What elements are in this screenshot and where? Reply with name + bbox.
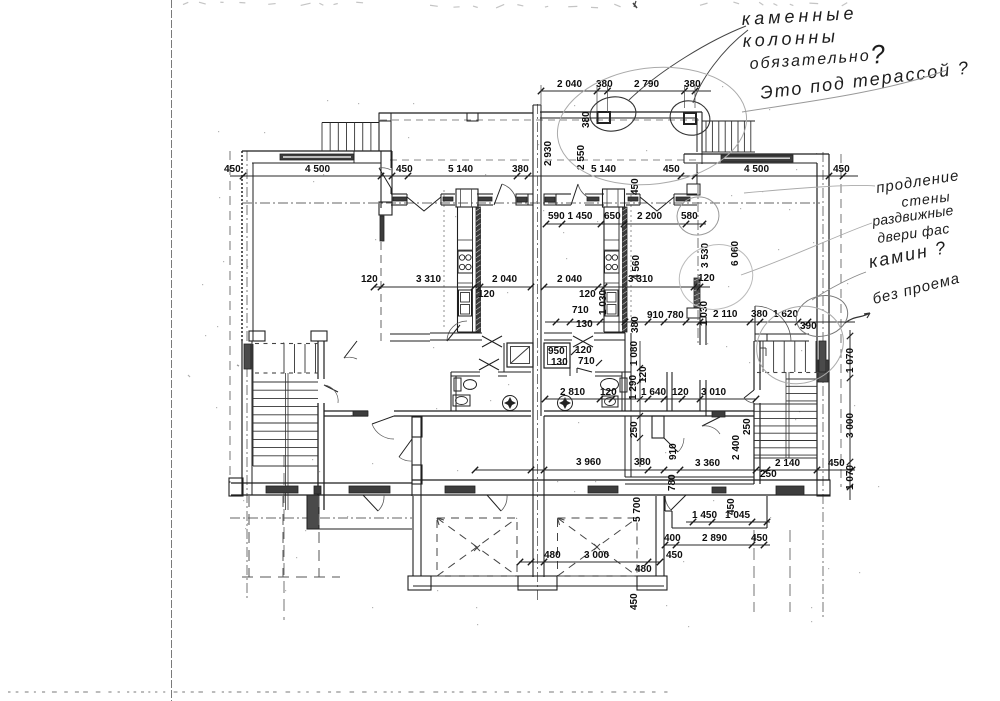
terrace open edge dashed bbox=[380, 242, 382, 341]
svg-text:450: 450 bbox=[828, 458, 845, 469]
pen curve kamin leader bbox=[812, 272, 866, 300]
svg-text:450: 450 bbox=[833, 164, 850, 175]
dimension line porch right bbox=[662, 533, 770, 548]
axis line vertical right wall x823 bbox=[822, 152, 824, 620]
stairs entry door arc right bbox=[755, 306, 791, 341]
svg-text:120: 120 bbox=[638, 366, 649, 383]
svg-text:1 640: 1 640 bbox=[641, 387, 666, 398]
svg-text:2 810: 2 810 bbox=[560, 387, 585, 398]
svg-text:2 140: 2 140 bbox=[775, 458, 800, 469]
wall stairs-east left unit bbox=[318, 341, 324, 510]
terrace bottom pilaster A bbox=[249, 331, 265, 341]
axis dashed pencil line terrace y160 right bbox=[545, 159, 697, 161]
terrace top-left window sill core bbox=[283, 156, 351, 158]
dimension line top terrace bbox=[538, 79, 711, 94]
shower square left bbox=[507, 343, 533, 367]
dashed X square left bbox=[437, 518, 517, 576]
svg-text:3 000: 3 000 bbox=[584, 550, 609, 561]
svg-text:650: 650 bbox=[604, 211, 621, 222]
x mark square left bbox=[474, 545, 480, 551]
svg-text:3 010: 3 010 bbox=[701, 387, 726, 398]
axis line horizontal left terrace y518 bbox=[230, 517, 412, 519]
terrace bottom pilaster B bbox=[311, 331, 327, 341]
door arc mid-room left bbox=[344, 341, 357, 359]
dashed terrace lower left bbox=[242, 496, 340, 577]
bathroom walls right bbox=[570, 368, 631, 411]
pencil leader prodlenie bbox=[744, 185, 875, 193]
svg-text:120: 120 bbox=[361, 274, 378, 285]
vertical dimension right margin bbox=[845, 330, 856, 500]
stair landing bar right bbox=[755, 334, 809, 341]
door arc corridor left unit bbox=[372, 416, 394, 439]
pen circle column left bbox=[588, 94, 638, 134]
pier top hall wall left bbox=[412, 417, 422, 484]
dimension line right kitchen bbox=[541, 273, 715, 300]
svg-text:1 030: 1 030 bbox=[598, 290, 609, 315]
dimension line corridor bottom bbox=[472, 457, 855, 480]
vertical dim line x640 bbox=[637, 341, 643, 467]
svg-text:710: 710 bbox=[572, 305, 589, 316]
kitchen left door from terrace bbox=[447, 321, 467, 341]
bathroom walls left bbox=[451, 343, 531, 411]
mid wall left unit bbox=[390, 333, 482, 341]
svg-text:2 040: 2 040 bbox=[557, 79, 582, 90]
door wedge left B bbox=[479, 359, 499, 370]
dimension line main top bbox=[224, 164, 858, 179]
svg-text:380: 380 bbox=[512, 164, 529, 175]
door wedge right A bbox=[573, 336, 593, 347]
house bottom wall bbox=[412, 480, 830, 495]
svg-text:450: 450 bbox=[726, 498, 737, 515]
top-right window sill core bbox=[724, 157, 790, 159]
pencil swoosh under terrasa note bbox=[742, 70, 947, 112]
axis line vertical left wall x247 bbox=[246, 151, 248, 600]
scan fold vertical line bbox=[171, 0, 173, 701]
lower wall right unit bbox=[625, 477, 754, 484]
axis line vertical party wall x537 bbox=[537, 104, 539, 600]
axis dashed pencil line upper rooms y120 bbox=[380, 119, 700, 121]
svg-text:780: 780 bbox=[667, 310, 684, 321]
svg-text:910: 910 bbox=[668, 443, 679, 460]
svg-text:колонны: колонны bbox=[742, 26, 839, 51]
pier below corridor right bbox=[652, 416, 664, 438]
svg-text:4 500: 4 500 bbox=[744, 164, 769, 175]
door arc stairs right bbox=[744, 390, 754, 403]
bottom terrace walls bbox=[408, 496, 667, 590]
dimension line porch steps bbox=[686, 510, 770, 525]
svg-text:380: 380 bbox=[634, 457, 651, 468]
svg-text:2 040: 2 040 bbox=[492, 274, 517, 285]
upper room top wall left unit bbox=[379, 113, 533, 194]
dimension line right unit rooms bbox=[543, 211, 706, 227]
svg-text:120: 120 bbox=[575, 345, 592, 356]
pencil leader razdvizhnye bbox=[741, 223, 872, 275]
pen leader to kamennye A bbox=[629, 26, 746, 100]
door arc bottom center bbox=[487, 495, 507, 511]
pier block right unit A bbox=[687, 184, 700, 195]
stair west wall right unit bbox=[754, 341, 760, 484]
svg-text:250: 250 bbox=[629, 421, 640, 438]
svg-text:1 080: 1 080 bbox=[629, 341, 640, 366]
toilet left bbox=[454, 378, 477, 391]
left outer face dashed bbox=[229, 151, 231, 483]
pen leader to kamennye B bbox=[693, 30, 748, 103]
dim ext ticks top bbox=[541, 85, 695, 112]
corridor wall right unit bbox=[544, 317, 754, 417]
toilet right bbox=[601, 378, 628, 392]
svg-text:120: 120 bbox=[478, 289, 495, 300]
exterior stairs top-right bbox=[702, 121, 755, 152]
front wall right unit bbox=[544, 184, 697, 211]
corridor wall left unit bbox=[324, 411, 531, 416]
dimension line bathrooms bbox=[542, 387, 759, 402]
dashed X square right bbox=[558, 518, 638, 576]
svg-text:2 400: 2 400 bbox=[731, 435, 742, 460]
axis line horizontal y203 bbox=[242, 202, 820, 204]
svg-text:480: 480 bbox=[544, 550, 561, 561]
bottom wall left wing bbox=[229, 478, 412, 496]
door arc bottom right unit bbox=[665, 495, 686, 510]
axis dashed vertical x754 bottom right bbox=[753, 530, 755, 612]
svg-text:3 360: 3 360 bbox=[695, 458, 720, 469]
svg-text:480: 480 bbox=[635, 564, 652, 575]
svg-text:130: 130 bbox=[551, 357, 568, 368]
kitchen unit left bbox=[456, 189, 481, 332]
vent square right unit bbox=[544, 343, 570, 368]
extension dotted vertical x444 bbox=[443, 190, 445, 330]
window band right unit bbox=[694, 278, 700, 308]
svg-text:без проема: без проема bbox=[871, 270, 962, 308]
door arc corridor right bbox=[702, 417, 720, 434]
door arc pier right bbox=[664, 438, 684, 452]
dimension line bottom terrace bbox=[517, 550, 663, 575]
svg-text:каменные: каменные bbox=[741, 3, 858, 29]
label 120 shower right bbox=[571, 345, 592, 356]
svg-text:450: 450 bbox=[396, 164, 413, 175]
pen arrow bottom right bbox=[845, 313, 870, 323]
svg-text:?: ? bbox=[869, 38, 888, 70]
door wedge left A bbox=[482, 336, 502, 347]
dimension line left kitchen bbox=[361, 274, 534, 300]
basin left bbox=[453, 395, 470, 406]
axis dashed vertical x790 bottom right bbox=[789, 530, 791, 612]
terrace pilaster right bbox=[379, 202, 392, 215]
top wall right unit bbox=[684, 154, 829, 163]
label 710 shower right bbox=[578, 356, 602, 367]
svg-text:2 200: 2 200 bbox=[637, 211, 662, 222]
svg-text:380: 380 bbox=[596, 79, 613, 90]
pen circle column right bbox=[666, 97, 713, 140]
svg-text:3 000: 3 000 bbox=[845, 413, 856, 438]
pier block right unit B bbox=[687, 308, 700, 318]
front wall left unit with windows and doors bbox=[391, 184, 533, 211]
terrace top-left walls bbox=[242, 151, 392, 341]
svg-text:450: 450 bbox=[629, 593, 640, 610]
svg-text:130: 130 bbox=[576, 319, 593, 330]
svg-text:380: 380 bbox=[630, 316, 641, 333]
svg-text:3 960: 3 960 bbox=[576, 457, 601, 468]
x mark square right bbox=[594, 544, 600, 550]
scan dotted line bottom bbox=[8, 691, 668, 693]
interior wall right unit bbox=[625, 416, 631, 477]
svg-text:450: 450 bbox=[630, 178, 641, 195]
exterior stairs top-left bbox=[322, 123, 379, 152]
terrace top-right wall and columns bbox=[540, 112, 702, 184]
terrace window band right bbox=[380, 216, 384, 241]
pencil big ellipse terrace bbox=[551, 57, 754, 195]
wall bath-east right unit bbox=[667, 372, 672, 411]
svg-text:4 560: 4 560 bbox=[631, 255, 642, 280]
svg-text:1 030: 1 030 bbox=[699, 301, 710, 326]
pencil circle fireplace bbox=[792, 290, 853, 342]
svg-text:4 500: 4 500 bbox=[305, 164, 330, 175]
terrace top-left window sill bbox=[280, 154, 354, 160]
svg-text:1 290: 1 290 bbox=[628, 375, 639, 400]
svg-text:3 310: 3 310 bbox=[416, 274, 441, 285]
svg-text:2 550: 2 550 bbox=[576, 145, 587, 170]
right outer wall bbox=[817, 154, 830, 496]
svg-text:910: 910 bbox=[647, 310, 664, 321]
rotated dimension labels bbox=[543, 111, 753, 610]
svg-text:710: 710 bbox=[578, 356, 595, 367]
arrowhead square left bbox=[437, 518, 444, 525]
svg-text:2 040: 2 040 bbox=[557, 274, 582, 285]
terrace door leaf left bbox=[379, 168, 391, 188]
svg-text:590 1 450: 590 1 450 bbox=[548, 211, 593, 222]
kitchen unit right bbox=[603, 189, 628, 332]
svg-text:120: 120 bbox=[698, 273, 715, 284]
scan noise top edge bbox=[183, 2, 847, 8]
svg-text:450: 450 bbox=[751, 533, 768, 544]
axis dash-dot x698 bbox=[697, 184, 699, 345]
svg-text:120: 120 bbox=[579, 289, 596, 300]
dimension line mid right bbox=[545, 305, 855, 332]
svg-text:450: 450 bbox=[666, 550, 683, 561]
party wall center bbox=[533, 105, 544, 577]
svg-text:450: 450 bbox=[663, 164, 680, 175]
svg-text:2 110: 2 110 bbox=[713, 309, 738, 320]
staircase right unit bbox=[754, 341, 826, 458]
extension dotted vertical x631 bbox=[630, 190, 632, 330]
right outer face dashed bbox=[840, 154, 842, 487]
axis dashed pencil line upper rooms y160 bbox=[390, 159, 533, 161]
terrace corner block top-left bbox=[353, 151, 355, 163]
porch left bbox=[307, 486, 412, 529]
basin right bbox=[602, 396, 618, 407]
svg-text:2 930: 2 930 bbox=[543, 141, 554, 166]
entry porch right unit bbox=[665, 496, 767, 528]
speck marks bbox=[188, 1, 637, 377]
pencil tall oval right of kitchen bbox=[672, 237, 760, 318]
svg-text:250: 250 bbox=[760, 469, 777, 480]
axis line vertical x284 lower left bbox=[283, 455, 285, 620]
svg-text:780: 780 bbox=[667, 474, 678, 491]
svg-text:580: 580 bbox=[681, 211, 698, 222]
svg-text:5 140: 5 140 bbox=[591, 164, 616, 175]
door arc entry hall left bbox=[399, 439, 412, 461]
svg-text:2 890: 2 890 bbox=[702, 533, 727, 544]
svg-text:250: 250 bbox=[742, 418, 753, 435]
svg-text:950: 950 bbox=[548, 346, 565, 357]
drain circle right bbox=[558, 396, 573, 411]
staircase left unit bbox=[253, 344, 319, 511]
svg-text:1 070: 1 070 bbox=[845, 465, 856, 490]
left outer wall lower bbox=[242, 341, 252, 495]
scan speckles bbox=[202, 86, 879, 627]
svg-text:450: 450 bbox=[224, 164, 241, 175]
pencil oval around 580 label bbox=[674, 194, 722, 239]
pencil circle stairs right bbox=[746, 294, 855, 396]
svg-text:5 140: 5 140 bbox=[448, 164, 473, 175]
svg-text:6 060: 6 060 bbox=[730, 241, 741, 266]
svg-text:1 070: 1 070 bbox=[845, 348, 856, 373]
svg-text:120: 120 bbox=[600, 387, 617, 398]
wall left-wing east bbox=[412, 416, 421, 496]
arrowhead square right bbox=[558, 518, 565, 525]
door arc stairs left bbox=[324, 385, 338, 403]
svg-text:400: 400 bbox=[664, 533, 681, 544]
svg-text:120: 120 bbox=[672, 387, 689, 398]
svg-text:390: 390 bbox=[800, 321, 817, 332]
svg-text:380: 380 bbox=[751, 309, 768, 320]
mid wall right unit bbox=[544, 333, 631, 411]
door arc left wing bbox=[363, 495, 384, 511]
svg-text:обязательно: обязательно bbox=[749, 48, 871, 73]
svg-text:5 700: 5 700 bbox=[632, 497, 643, 522]
svg-text:1 450: 1 450 bbox=[692, 510, 717, 521]
drain circle left bbox=[503, 396, 518, 411]
